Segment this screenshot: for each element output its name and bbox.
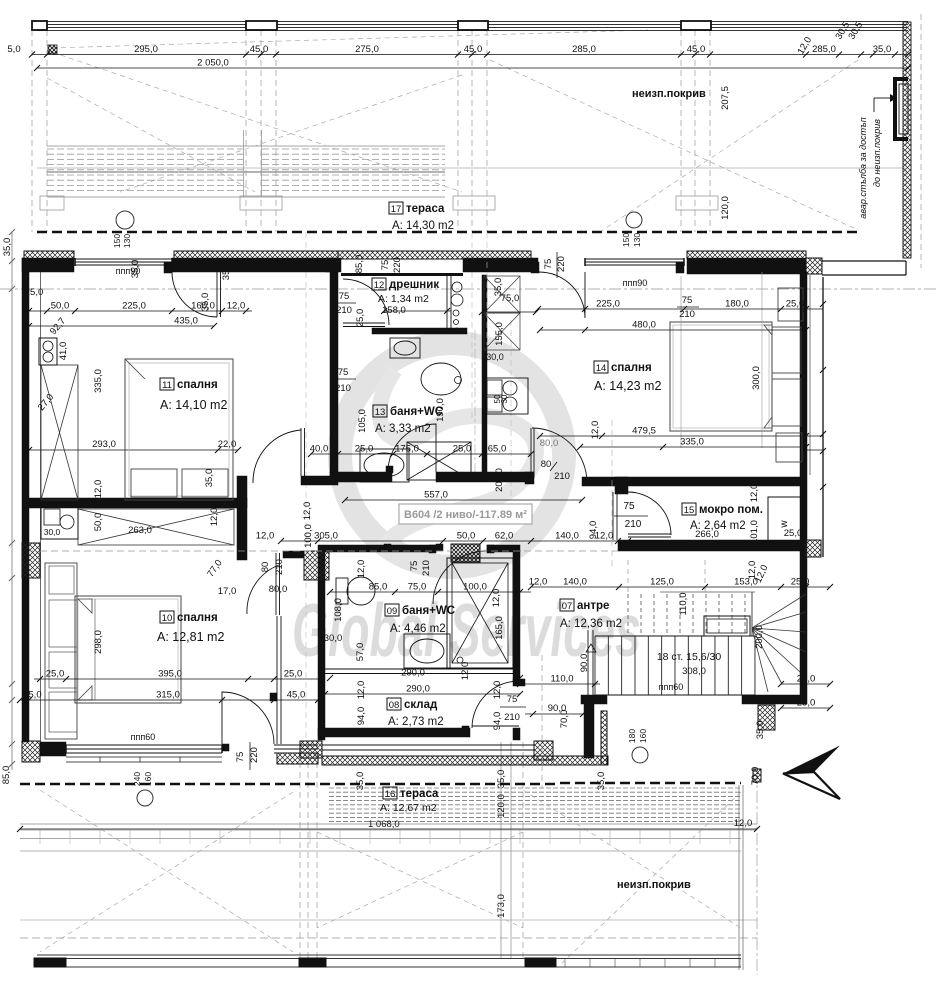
svg-text:160: 160 [143,772,153,786]
svg-text:дрешник: дрешник [389,279,439,291]
svg-text:12,0: 12,0 [302,502,313,521]
svg-text:308,0: 308,0 [682,666,706,677]
svg-text:75: 75 [338,367,349,378]
svg-text:75: 75 [543,259,554,270]
svg-text:298,0: 298,0 [93,630,104,654]
svg-text:35,0: 35,0 [355,772,366,791]
svg-text:125,0: 125,0 [650,577,674,588]
svg-text:210: 210 [335,383,351,394]
svg-text:12,0: 12,0 [749,484,760,503]
svg-text:ппп90: ппп90 [116,266,141,276]
svg-text:80,0: 80,0 [269,584,288,595]
svg-text:210: 210 [421,560,432,576]
svg-text:07: 07 [562,601,573,612]
svg-text:25,0: 25,0 [797,674,816,685]
svg-text:1 068,0: 1 068,0 [368,819,400,830]
svg-text:12,0: 12,0 [93,480,104,499]
svg-text:335,0: 335,0 [93,369,104,393]
svg-text:склад: склад [404,699,438,711]
svg-text:62,0: 62,0 [495,531,514,542]
svg-text:295,0: 295,0 [134,44,158,55]
svg-text:70,0: 70,0 [750,767,761,786]
svg-text:08: 08 [389,700,400,711]
svg-text:баня+WC: баня+WC [402,605,455,617]
svg-text:45,0: 45,0 [250,44,269,55]
svg-text:210: 210 [625,519,642,530]
svg-text:80,0: 80,0 [540,438,559,449]
svg-text:неизп.покрив: неизп.покрив [617,879,691,891]
svg-text:A: 2,73 m2: A: 2,73 m2 [388,716,444,728]
svg-text:85,0: 85,0 [369,582,388,593]
svg-text:300,0: 300,0 [751,366,762,390]
svg-text:220: 220 [392,257,403,273]
svg-text:45,0: 45,0 [464,44,483,55]
svg-text:2 050,0: 2 050,0 [197,58,229,69]
svg-text:A: 14,30 m2: A: 14,30 m2 [392,220,454,232]
svg-text:25,0: 25,0 [355,444,374,455]
svg-text:тераса: тераса [406,203,445,215]
svg-text:85,0: 85,0 [1,766,12,785]
svg-text:557,0: 557,0 [424,490,448,501]
svg-text:35,0: 35,0 [221,262,232,281]
svg-text:35,0: 35,0 [596,772,607,791]
svg-text:225,0: 225,0 [596,299,620,310]
svg-text:A: 4,46 m2: A: 4,46 m2 [390,623,446,635]
svg-text:335,0: 335,0 [680,437,704,448]
svg-text:A: 12,36 m2: A: 12,36 m2 [560,618,622,630]
svg-text:90,0: 90,0 [579,654,590,673]
svg-text:12: 12 [374,280,385,291]
svg-text:тераса: тераса [400,788,439,800]
svg-text:12,0: 12,0 [356,560,367,579]
svg-text:12,0: 12,0 [492,681,503,700]
svg-text:17,0: 17,0 [218,586,237,597]
svg-text:ппп60: ппп60 [659,682,684,692]
svg-text:50,0: 50,0 [93,513,104,532]
svg-text:155,0: 155,0 [494,322,505,346]
svg-text:авар.стълба за достъп: авар.стълба за достъп [858,117,868,218]
svg-text:18 ст. 15,6/30: 18 ст. 15,6/30 [657,651,722,663]
svg-text:65,0: 65,0 [488,444,507,455]
svg-text:290,0: 290,0 [406,684,430,695]
svg-text:140,0: 140,0 [563,577,587,588]
svg-text:290,0: 290,0 [401,668,425,679]
svg-text:140,0: 140,0 [555,531,579,542]
svg-text:80: 80 [541,459,552,470]
svg-text:263,0: 263,0 [128,525,152,536]
svg-text:75: 75 [409,561,420,572]
svg-text:спалня: спалня [611,362,652,374]
svg-text:A: 14,10 m2: A: 14,10 m2 [160,398,227,412]
svg-text:16: 16 [385,789,396,800]
svg-text:480,0: 480,0 [632,320,656,331]
svg-text:25,0: 25,0 [784,528,803,539]
svg-text:293,0: 293,0 [92,439,116,450]
svg-text:25,0: 25,0 [797,698,816,709]
svg-text:105,0: 105,0 [357,409,368,433]
svg-text:210: 210 [336,305,352,316]
svg-text:180: 180 [627,729,637,743]
svg-text:120,0: 120,0 [496,794,507,818]
svg-text:75: 75 [682,295,693,306]
svg-text:до неизп.покрив: до неизп.покрив [872,119,882,187]
svg-text:50,0: 50,0 [51,301,70,312]
svg-text:395,0: 395,0 [158,669,182,680]
svg-text:мокро пом.: мокро пом. [699,504,763,516]
svg-text:225,0: 225,0 [122,301,146,312]
svg-text:160: 160 [638,729,648,743]
svg-text:175,0: 175,0 [395,444,419,455]
svg-text:75: 75 [235,752,246,763]
svg-text:207,5: 207,5 [720,86,731,110]
svg-text:45,0: 45,0 [687,44,706,55]
svg-text:30,0: 30,0 [486,352,504,362]
svg-text:A: 14,23 m2: A: 14,23 m2 [594,379,661,393]
svg-text:12,0: 12,0 [460,662,471,681]
svg-text:94,0: 94,0 [492,712,503,731]
svg-text:75: 75 [623,501,635,512]
svg-text:285,0: 285,0 [572,44,596,55]
svg-text:25,0: 25,0 [786,299,805,310]
svg-text:14: 14 [596,363,607,374]
svg-text:A: 12,67 m2: A: 12,67 m2 [380,802,437,814]
svg-text:35,0: 35,0 [496,770,507,789]
svg-text:A: 1,34 m2: A: 1,34 m2 [378,293,429,305]
svg-text:45,0: 45,0 [287,690,306,701]
svg-text:150: 150 [621,233,631,247]
svg-text:315,0: 315,0 [156,690,180,701]
svg-text:12,0: 12,0 [590,421,601,440]
svg-text:12,0: 12,0 [256,531,275,542]
svg-text:5,0: 5,0 [7,44,20,55]
svg-text:25,0: 25,0 [284,669,303,680]
svg-text:120,0: 120,0 [720,196,731,220]
svg-text:110,0: 110,0 [550,674,573,685]
svg-text:12,0: 12,0 [356,681,367,700]
svg-text:антре: антре [577,600,609,612]
svg-text:25,0: 25,0 [453,444,472,455]
svg-text:80: 80 [260,562,271,573]
svg-text:25,0: 25,0 [791,577,810,588]
svg-text:94,0: 94,0 [356,707,367,726]
svg-text:94,0: 94,0 [588,521,599,540]
svg-text:11: 11 [162,380,172,391]
svg-text:130: 130 [122,234,132,248]
svg-text:неизп.покрив: неизп.покрив [632,88,706,100]
svg-text:108,0: 108,0 [333,598,344,622]
svg-text:275,0: 275,0 [355,44,379,55]
svg-text:479,5: 479,5 [632,426,656,437]
svg-text:30,0: 30,0 [324,633,343,644]
svg-text:12,0: 12,0 [529,577,548,588]
svg-text:220: 220 [556,256,567,272]
svg-text:35,0: 35,0 [204,469,215,488]
svg-text:30,0: 30,0 [44,527,61,537]
svg-text:A: 2,64 m2: A: 2,64 m2 [690,520,746,532]
svg-text:240: 240 [132,772,142,786]
svg-text:12,0: 12,0 [734,818,753,829]
svg-text:435,0: 435,0 [174,316,198,327]
svg-text:100,0: 100,0 [463,582,487,593]
svg-text:210: 210 [504,712,520,723]
svg-text:баня+WC: баня+WC [390,406,443,418]
svg-text:165,0: 165,0 [494,616,505,640]
svg-text:41,0: 41,0 [58,342,69,361]
svg-text:210: 210 [679,309,695,320]
svg-text:15: 15 [684,505,695,516]
svg-text:12,0: 12,0 [491,589,502,608]
svg-text:A: 12,81 m2: A: 12,81 m2 [157,630,224,644]
svg-text:25,0: 25,0 [46,669,65,680]
svg-text:35,0: 35,0 [873,44,892,55]
svg-text:200,0: 200,0 [754,625,765,649]
svg-text:40,0: 40,0 [310,444,329,455]
svg-text:285,0: 285,0 [812,44,836,55]
svg-text:спалня: спалня [177,612,218,624]
svg-text:180,0: 180,0 [725,299,749,310]
svg-text:75,0: 75,0 [408,582,427,593]
svg-text:ппп90: ппп90 [623,278,648,288]
svg-text:спалня: спалня [177,379,218,391]
svg-text:207,0: 207,0 [494,468,505,492]
svg-text:10: 10 [162,613,173,624]
svg-text:101,0: 101,0 [749,520,760,544]
svg-text:50,0: 50,0 [457,531,476,542]
svg-text:100,0: 100,0 [303,524,314,548]
svg-text:12,0: 12,0 [209,508,220,527]
svg-text:В604 /2 ниво/-117.89 м²: В604 /2 ниво/-117.89 м² [404,509,527,521]
svg-text:5,0: 5,0 [28,690,41,701]
svg-text:130: 130 [632,233,642,247]
svg-text:210: 210 [274,559,285,575]
svg-text:ппп60: ппп60 [131,732,156,742]
svg-text:220: 220 [249,747,260,763]
svg-text:57,0: 57,0 [355,643,366,662]
svg-text:158,0: 158,0 [382,305,406,316]
svg-text:210: 210 [554,471,570,482]
svg-text:85,0: 85,0 [354,255,365,274]
svg-text:35,0: 35,0 [493,278,504,297]
svg-text:13: 13 [375,407,386,418]
svg-text:110,0: 110,0 [678,592,689,615]
svg-text:305,0: 305,0 [314,531,338,542]
svg-text:25,0: 25,0 [25,287,44,298]
svg-text:75: 75 [507,694,518,705]
svg-text:12,0: 12,0 [227,301,246,312]
svg-text:09: 09 [387,606,398,617]
svg-text:17: 17 [391,204,402,215]
svg-text:25,0: 25,0 [355,309,366,328]
svg-text:173,0: 173,0 [496,894,507,918]
svg-text:35,0: 35,0 [755,721,766,740]
svg-text:150: 150 [112,234,122,248]
svg-text:75: 75 [339,291,350,302]
svg-text:75: 75 [380,260,391,271]
svg-text:A: 3,33 m2: A: 3,33 m2 [375,423,431,435]
svg-text:70,0: 70,0 [559,710,570,729]
svg-text:30: 30 [500,394,509,403]
svg-text:35,0: 35,0 [200,293,211,312]
svg-text:35,0: 35,0 [2,238,13,257]
